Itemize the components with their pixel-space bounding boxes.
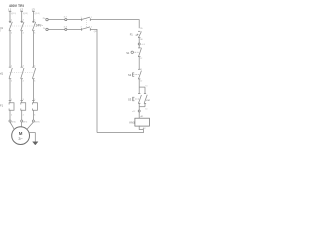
wire top rail left [48, 19, 82, 21]
wire bottom rail to corner [90, 29, 97, 132]
push-button S2 (NC) [128, 69, 142, 83]
svg-text:41.8: 41.8 [64, 26, 67, 28]
svg-text:12: 12 [140, 58, 142, 60]
node L1 arrival terminal [8, 7, 16, 15]
svg-text:2: 2 [91, 17, 92, 19]
svg-text:2: 2 [11, 33, 12, 35]
svg-text:KM1: KM1 [146, 100, 150, 102]
svg-text:4: 4 [91, 27, 92, 29]
wire to motor terminal V [21, 113, 23, 120]
wire top rail right [90, 20, 139, 29]
svg-text:3: 3 [81, 27, 82, 29]
wire to motor terminal W [32, 113, 34, 120]
push-button S3 (NO start) [128, 94, 141, 104]
wire branch rejoin [139, 106, 145, 108]
svg-text:(M:U): (M:U) [11, 121, 16, 123]
wire L1 mid [9, 31, 11, 67]
svg-text:2: 2 [0, 31, 1, 33]
contactor KM1 linkage dashed [10, 72, 36, 74]
wire L3 lower [32, 79, 34, 101]
thermal relay F1 element 3 [32, 99, 37, 117]
svg-text:3~: 3~ [18, 137, 23, 141]
wire to motor terminal U [9, 113, 11, 120]
connector circle on wire F1-S1 [138, 43, 140, 45]
svg-text:21: 21 [140, 69, 142, 71]
wire L1 lower [9, 79, 11, 101]
svg-text:4: 4 [23, 81, 24, 83]
wire S2 to node [138, 79, 140, 94]
motor terminal circle W1 [32, 120, 34, 122]
breaker Q1 pole 3 [32, 20, 36, 35]
contact KM1 aux (NO) [144, 94, 152, 104]
breaker Q1 linkage dashed [10, 25, 36, 27]
svg-text:22: 22 [140, 81, 142, 83]
terminal circle N [46, 28, 48, 30]
wire branch vertical top [144, 87, 146, 94]
svg-text:2: 2 [11, 81, 12, 83]
svg-text:41.7: 41.7 [64, 17, 67, 19]
push-button S1 (NC, round head) [126, 47, 142, 60]
svg-text:6: 6 [34, 33, 35, 35]
wire S1 to S2 [138, 57, 140, 70]
contactor KM1 pole 1 [9, 65, 13, 82]
svg-text:(M:W): (M:W) [35, 121, 40, 123]
contact F1 NC thermal [130, 28, 144, 41]
svg-text:x1.2: x1.2 [132, 111, 135, 113]
ground symbol [33, 142, 38, 145]
svg-text:24V~: 24V~ [36, 24, 44, 28]
svg-text:1: 1 [81, 17, 82, 19]
svg-text:400V TRI: 400V TRI [9, 4, 24, 8]
wire L3 mid [32, 31, 34, 67]
svg-text:5: 5 [34, 99, 35, 101]
coil KM1 [135, 118, 150, 126]
motor terminal circle V1 [21, 120, 23, 122]
thermal relay F1 element 1 [9, 99, 14, 117]
svg-text:1: 1 [11, 99, 12, 101]
wire branch vertical bottom [144, 103, 146, 106]
svg-text:3: 3 [23, 20, 24, 22]
svg-text:(M:V): (M:V) [23, 121, 28, 123]
wire coil A2 return [97, 126, 144, 133]
motor M1 circle [12, 127, 30, 145]
wire bottom rail left [48, 28, 82, 30]
contactor KM1 pole 3 [32, 65, 36, 82]
node L3 arrival terminal [32, 7, 40, 15]
wire F1 to S1 [138, 38, 140, 48]
connector circle on bottom rail [65, 28, 67, 30]
svg-text:x1.9: x1.9 [142, 44, 145, 46]
motor terminal circle U1 [9, 120, 11, 122]
breaker Q1 pole 1 [9, 20, 13, 35]
svg-text:4: 4 [23, 33, 24, 35]
svg-text:6: 6 [34, 115, 35, 117]
svg-text:3: 3 [23, 65, 24, 67]
contactor KM1 pole 2 [21, 65, 25, 82]
wire L1 top [9, 11, 11, 21]
svg-text:(Q1:5): (Q1:5) [35, 13, 40, 15]
wire L2 top [21, 11, 23, 21]
svg-text:5: 5 [34, 65, 35, 67]
thermal relay F1 element 2 [20, 99, 25, 117]
wire L2 mid [21, 31, 23, 67]
terminal circle Ph [46, 18, 48, 20]
svg-text:(Q1:3): (Q1:3) [23, 13, 28, 15]
svg-text:2: 2 [11, 115, 12, 117]
svg-text:S3: S3 [128, 97, 132, 101]
wire L3 top [32, 11, 34, 21]
wire motor to ground [28, 133, 35, 142]
svg-text:4: 4 [23, 115, 24, 117]
wire terminal U to motor [10, 122, 14, 129]
svg-text:S1: S1 [126, 51, 130, 55]
svg-text:3: 3 [23, 99, 24, 101]
switch Q2 linkage dashed [86, 18, 88, 29]
switch Q2 pole 1 [81, 17, 92, 21]
svg-text:14: 14 [145, 109, 147, 111]
wire terminal W to motor [27, 122, 34, 129]
svg-text:KM1: KM1 [130, 121, 136, 125]
breaker Q1 pole 2 [21, 20, 25, 35]
svg-text:1: 1 [11, 20, 12, 22]
wire terminal V to motor [20, 122, 22, 127]
svg-text:5: 5 [34, 20, 35, 22]
svg-text:Ph: Ph [43, 18, 45, 20]
connector circle on wire to coil [138, 110, 140, 112]
node L2 arrival terminal [20, 7, 28, 15]
svg-text:1: 1 [11, 65, 12, 67]
svg-text:6: 6 [34, 81, 35, 83]
wire L2 lower [21, 79, 23, 101]
svg-text:S2: S2 [128, 73, 132, 77]
svg-text:M: M [19, 131, 23, 136]
switch Q2 pole 2 [81, 27, 92, 31]
connector circle on top rail [65, 19, 67, 21]
svg-text:13: 13 [145, 86, 147, 88]
wire branch top [139, 86, 145, 88]
wire S3 to coil [138, 103, 140, 118]
svg-text:(Q1:1): (Q1:1) [11, 13, 16, 15]
